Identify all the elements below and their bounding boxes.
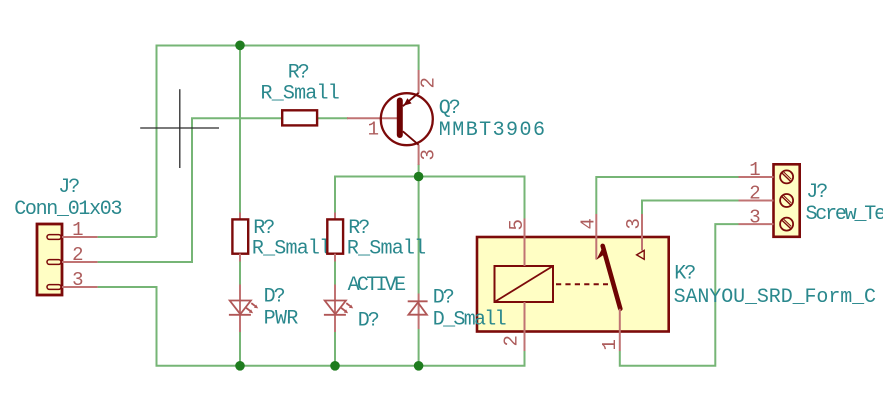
- resistor R3 pin stub bottom: [334, 254, 336, 262]
- wire diode to rail: [418, 329, 420, 366]
- crosshair: [179, 89, 181, 168]
- relay pin 1 inner: [619, 309, 621, 332]
- svg-text:2: 2: [72, 244, 83, 266]
- relay pin 3 stub: [641, 214, 643, 237]
- svg-text:R_Small: R_Small: [252, 238, 330, 261]
- diode D3 cathode bar: [408, 300, 428, 302]
- connector J1 socket 2: [47, 260, 61, 265]
- relay pin 5 stub: [524, 219, 526, 238]
- junction rail 1: [235, 361, 245, 371]
- transistor Q1 circle: [381, 93, 433, 145]
- transistor Q1 pin 2 (emitter stub): [418, 70, 420, 94]
- relay pin 3 inner: [641, 237, 643, 251]
- LED D2 triangle: [325, 301, 346, 315]
- screw terminal circle 1: [780, 170, 793, 183]
- LED D1 pin bottom: [239, 315, 241, 332]
- relay coil diagonal: [495, 266, 554, 302]
- LED D1 pin top: [239, 285, 241, 315]
- wire LED2 to rail: [334, 332, 336, 366]
- wire pin3 to bottom rail: [98, 287, 525, 366]
- LED D2 pin top: [334, 285, 336, 315]
- wire relay pin1 to screw pin3: [620, 224, 739, 366]
- svg-text:R?: R?: [288, 62, 309, 85]
- junction top: [235, 41, 245, 51]
- connector J1 socket 1: [47, 235, 61, 240]
- screw terminal circle 3: [780, 218, 793, 231]
- wire pin1 connector: [98, 236, 157, 238]
- connector J1 pin 2: [62, 261, 98, 263]
- svg-text:D?: D?: [433, 287, 454, 310]
- wire R3 to LED2: [334, 262, 336, 285]
- diode D3 triangle: [408, 303, 427, 315]
- wire R2 to LED1: [239, 262, 241, 285]
- svg-text:Screw_Termina: Screw_Termina: [806, 203, 883, 226]
- svg-text:3: 3: [623, 218, 645, 229]
- wire LED1 to rail: [239, 332, 241, 366]
- resistor R2 body: [232, 219, 248, 253]
- svg-text:1: 1: [72, 219, 83, 241]
- LED D2 arrow 2: [341, 308, 345, 311]
- junction rail 3: [414, 361, 424, 371]
- connector J1 pin 3: [62, 286, 98, 288]
- connector J1 socket 3: [47, 285, 61, 290]
- svg-text:R_Small: R_Small: [347, 238, 425, 261]
- LED D2 cathode bar: [324, 314, 346, 316]
- screw terminal pin 2: [739, 200, 774, 202]
- relay coil: [495, 266, 554, 302]
- connector J1 pin 1: [62, 236, 98, 238]
- relay dashed link: [556, 283, 608, 285]
- wire relay pin4 to screw pin1: [596, 177, 738, 214]
- junction collector: [414, 172, 424, 182]
- relay coil pin 5 inner: [524, 237, 526, 266]
- wire relay pin3 to screw pin2: [642, 201, 739, 215]
- svg-text:3: 3: [749, 206, 760, 228]
- LED D1 cathode bar: [229, 314, 251, 316]
- wire top rail: [157, 46, 419, 238]
- svg-text:D?: D?: [264, 286, 285, 309]
- svg-text:R_Small: R_Small: [261, 82, 339, 105]
- transistor Q1 emitter arrow: [403, 98, 411, 106]
- relay pin 4 inner: [595, 237, 597, 260]
- relay K1 body: [477, 237, 669, 332]
- relay arm flag: [596, 246, 605, 260]
- svg-text:5: 5: [506, 219, 528, 230]
- transistor Q1 base bar: [397, 101, 403, 136]
- svg-text:3: 3: [418, 149, 440, 160]
- transistor Q1 collector diagonal: [403, 131, 419, 145]
- svg-text:K?: K?: [674, 263, 695, 286]
- wire collector rail: [335, 177, 525, 219]
- LED D1 arrow 1: [251, 303, 255, 306]
- transistor Q1 pin 3 (collector stub): [418, 145, 420, 165]
- LED D1 arrow 2: [246, 308, 250, 311]
- LED D2 pin bottom: [334, 315, 336, 332]
- svg-text:1: 1: [599, 339, 621, 350]
- wire base from pin2 riser: [98, 118, 282, 262]
- svg-text:Conn_01x03: Conn_01x03: [14, 198, 121, 221]
- screw terminal pin 1: [739, 176, 774, 178]
- svg-text:3: 3: [72, 269, 83, 291]
- screw terminal circle 2: [780, 194, 793, 207]
- svg-text:4: 4: [578, 218, 600, 229]
- wire diode branch: [418, 177, 420, 294]
- svg-text:MMBT3906: MMBT3906: [439, 119, 547, 142]
- wire collector stub: [418, 164, 420, 177]
- screw terminal J2 body: [774, 164, 800, 237]
- svg-text:SANYOU_SRD_Form_C: SANYOU_SRD_Form_C: [674, 286, 876, 309]
- resistor R3 pin stub top: [334, 213, 336, 220]
- svg-text:1: 1: [368, 119, 379, 141]
- diode D3 pin bottom: [418, 315, 420, 329]
- screw terminal pin 3: [739, 223, 774, 225]
- relay pin 2 stub: [524, 332, 526, 352]
- svg-text:ACTIVE: ACTIVE: [348, 274, 406, 297]
- svg-text:J?: J?: [58, 176, 79, 199]
- wire junction drop to R2: [239, 45, 241, 212]
- resistor R1 body: [282, 110, 317, 125]
- svg-text:2: 2: [418, 77, 440, 88]
- svg-text:2: 2: [749, 183, 760, 205]
- relay pin 1 stub: [619, 332, 621, 352]
- junction rail 2: [330, 361, 340, 371]
- svg-text:PWR: PWR: [264, 308, 299, 331]
- relay NC contact triangle: [637, 250, 645, 259]
- diode D3 pin top: [418, 294, 420, 315]
- resistor R2 pin stub top: [239, 213, 241, 220]
- resistor R3 body: [327, 219, 343, 253]
- relay coil pin 2 inner: [524, 302, 526, 332]
- connector J1 body: [37, 224, 62, 295]
- resistor R2 pin stub bottom: [239, 254, 241, 262]
- svg-text:D_Small: D_Small: [433, 309, 506, 332]
- relay pin 4 stub: [595, 214, 597, 237]
- svg-text:D?: D?: [358, 310, 379, 333]
- LED D2 arrow 1: [346, 303, 350, 306]
- svg-text:J?: J?: [806, 181, 827, 204]
- LED D1 triangle: [230, 301, 251, 315]
- relay switch arm: [603, 246, 621, 309]
- svg-text:2: 2: [501, 335, 523, 346]
- svg-text:1: 1: [749, 159, 760, 181]
- transistor Q1 emitter diagonal: [403, 93, 419, 106]
- wire resistor to base: [317, 117, 348, 119]
- svg-text:Q?: Q?: [439, 97, 460, 120]
- transistor Q1 pin 1 (base): [347, 117, 397, 119]
